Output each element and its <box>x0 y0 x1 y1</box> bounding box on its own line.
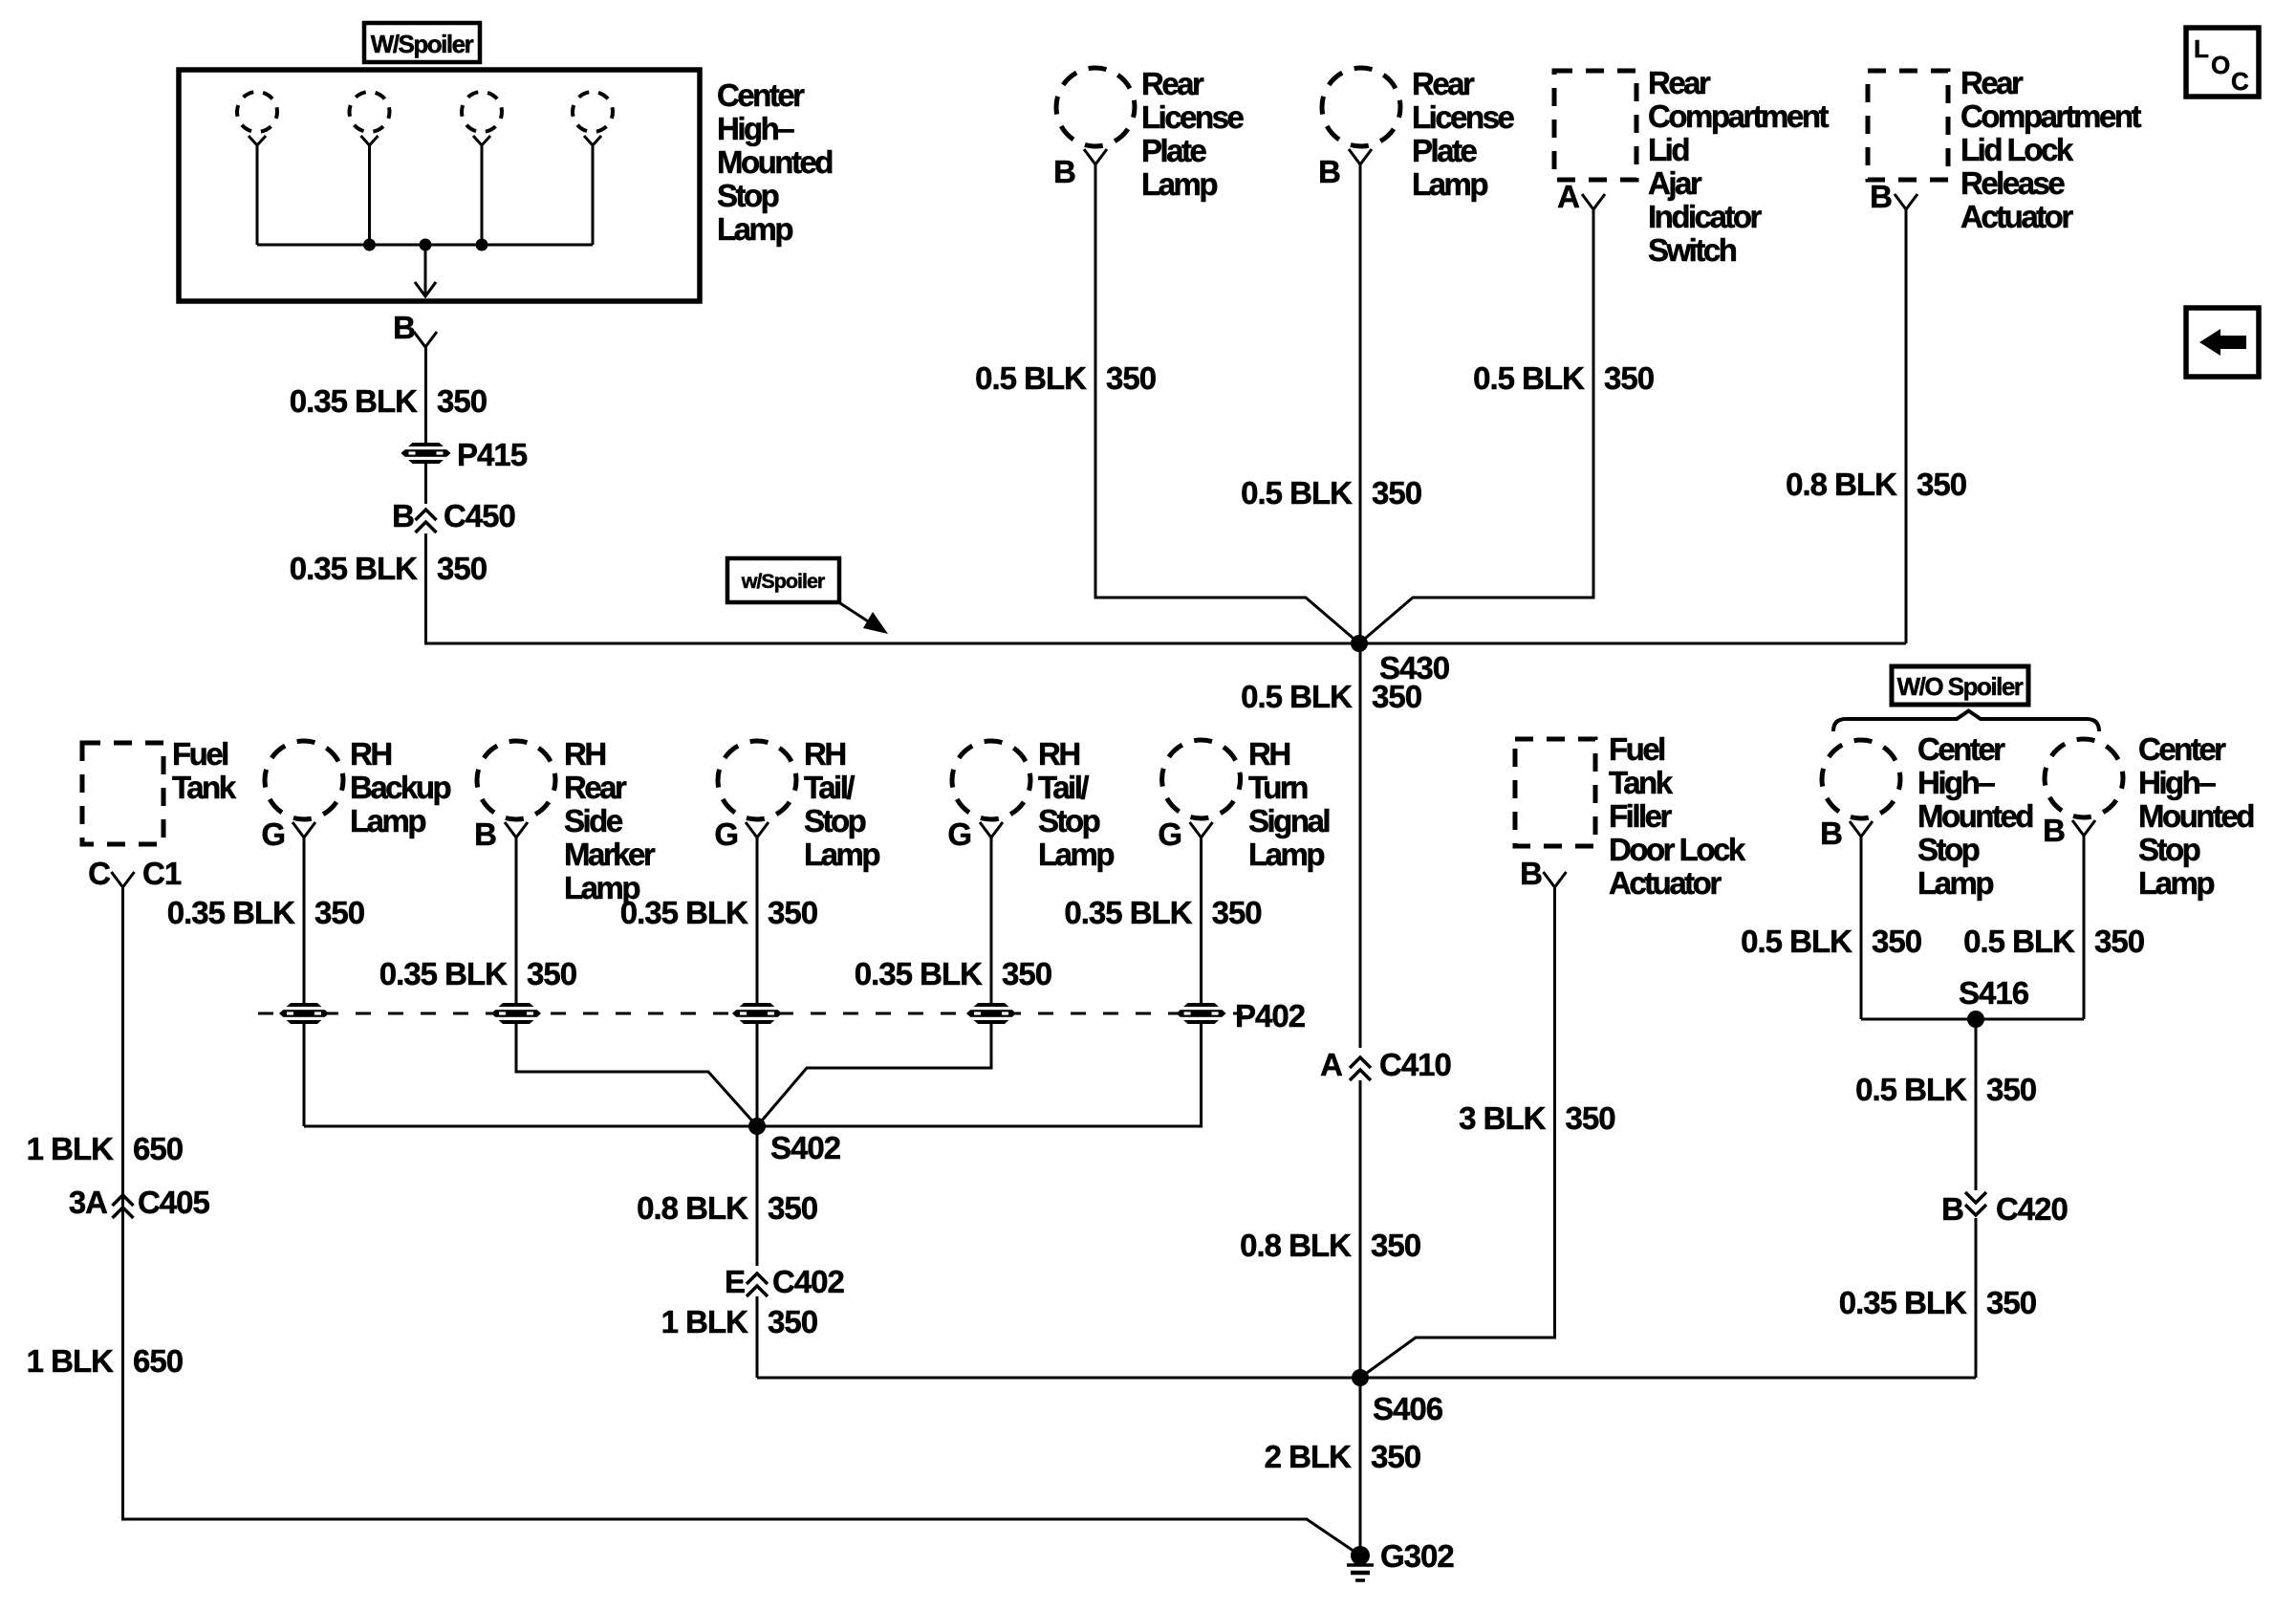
svg-text:350: 350 <box>2094 924 2144 959</box>
svg-text:Center: Center <box>1917 731 2005 767</box>
svg-text:0.35 BLK: 0.35 BLK <box>855 956 983 991</box>
svg-text:RH: RH <box>564 736 605 772</box>
svg-text:Door Lock: Door Lock <box>1609 832 1746 867</box>
svg-text:Mounted: Mounted <box>717 144 832 180</box>
svg-text:G302: G302 <box>1380 1538 1454 1574</box>
svg-text:350: 350 <box>1566 1100 1615 1136</box>
svg-text:Tail/: Tail/ <box>804 770 855 805</box>
svg-text:B: B <box>1820 816 1842 851</box>
svg-text:Center: Center <box>2138 731 2226 767</box>
svg-text:Lamp: Lamp <box>1917 865 1993 901</box>
svg-text:G: G <box>714 816 738 852</box>
svg-text:Plate: Plate <box>1141 133 1207 168</box>
svg-text:Rear: Rear <box>1648 65 1711 100</box>
svg-text:G: G <box>1158 816 1181 852</box>
svg-text:Rear: Rear <box>1412 66 1475 101</box>
svg-text:Actuator: Actuator <box>1960 199 2073 234</box>
svg-text:0.35 BLK: 0.35 BLK <box>1839 1285 1967 1320</box>
svg-text:350: 350 <box>1372 679 1421 714</box>
svg-text:L: L <box>2194 34 2209 63</box>
svg-text:Side: Side <box>564 803 623 838</box>
svg-text:Compartment: Compartment <box>1648 98 1830 134</box>
svg-text:Fuel: Fuel <box>172 736 227 772</box>
svg-text:License: License <box>1141 99 1245 135</box>
svg-text:Indicator: Indicator <box>1648 199 1763 234</box>
svg-text:C1: C1 <box>142 856 182 891</box>
svg-text:Tail/: Tail/ <box>1038 770 1089 805</box>
svg-text:350: 350 <box>1604 360 1654 396</box>
svg-text:0.35 BLK: 0.35 BLK <box>167 895 295 930</box>
svg-text:Lamp: Lamp <box>1248 837 1324 872</box>
svg-text:Filler: Filler <box>1609 798 1673 834</box>
svg-text:High–: High– <box>717 111 794 146</box>
svg-text:S416: S416 <box>1959 975 2029 1011</box>
svg-text:0.5 BLK: 0.5 BLK <box>1473 360 1585 396</box>
svg-text:350: 350 <box>1872 924 1921 959</box>
svg-text:G: G <box>947 816 971 852</box>
svg-text:Backup: Backup <box>350 770 451 805</box>
svg-text:350: 350 <box>1002 956 1051 991</box>
svg-text:0.35 BLK: 0.35 BLK <box>379 956 508 991</box>
svg-text:B: B <box>1318 154 1340 189</box>
svg-text:0.35 BLK: 0.35 BLK <box>290 383 418 419</box>
svg-text:Lamp: Lamp <box>350 803 425 838</box>
svg-text:C405: C405 <box>138 1185 210 1220</box>
svg-text:350: 350 <box>1212 895 1262 930</box>
svg-text:1 BLK: 1 BLK <box>661 1304 749 1339</box>
svg-text:1 BLK: 1 BLK <box>27 1343 115 1379</box>
svg-text:350: 350 <box>437 551 487 586</box>
svg-text:350: 350 <box>768 895 817 930</box>
svg-text:RH: RH <box>804 736 845 772</box>
svg-text:1 BLK: 1 BLK <box>27 1131 115 1166</box>
svg-text:350: 350 <box>527 956 576 991</box>
svg-text:W/Spoiler: W/Spoiler <box>371 30 474 58</box>
svg-text:w/Spoiler: w/Spoiler <box>741 570 826 593</box>
svg-text:O: O <box>2211 51 2230 79</box>
svg-text:0.5 BLK: 0.5 BLK <box>1241 475 1353 511</box>
svg-text:650: 650 <box>133 1131 183 1166</box>
svg-text:Compartment: Compartment <box>1960 98 2142 134</box>
svg-text:Center: Center <box>717 77 805 113</box>
svg-text:0.8 BLK: 0.8 BLK <box>637 1190 748 1226</box>
svg-text:0.5 BLK: 0.5 BLK <box>1855 1072 1967 1107</box>
svg-text:Lid Lock: Lid Lock <box>1960 132 2074 167</box>
svg-text:350: 350 <box>768 1190 817 1226</box>
svg-text:0.8 BLK: 0.8 BLK <box>1240 1228 1352 1263</box>
svg-text:C402: C402 <box>772 1264 845 1299</box>
svg-text:A: A <box>1320 1047 1342 1082</box>
svg-text:Mounted: Mounted <box>1917 798 2032 834</box>
svg-text:Tank: Tank <box>1609 765 1674 800</box>
svg-text:350: 350 <box>1371 1439 1420 1474</box>
svg-text:Stop: Stop <box>1917 832 1980 867</box>
svg-text:Tank: Tank <box>172 770 237 805</box>
svg-text:RH: RH <box>350 736 391 772</box>
svg-text:350: 350 <box>437 383 487 419</box>
svg-text:350: 350 <box>1986 1072 2036 1107</box>
svg-text:High–: High– <box>2138 765 2216 800</box>
svg-text:G: G <box>261 816 285 852</box>
svg-text:0.5 BLK: 0.5 BLK <box>975 360 1087 396</box>
svg-text:0.5 BLK: 0.5 BLK <box>1241 679 1353 714</box>
svg-text:Rear: Rear <box>564 770 627 805</box>
svg-text:B: B <box>1870 179 1892 214</box>
svg-text:0.8 BLK: 0.8 BLK <box>1786 467 1897 502</box>
svg-text:350: 350 <box>1371 1228 1420 1263</box>
svg-text:C: C <box>88 856 110 891</box>
svg-text:High–: High– <box>1917 765 1995 800</box>
svg-text:Lamp: Lamp <box>2138 865 2214 901</box>
svg-text:RH: RH <box>1038 736 1079 772</box>
svg-text:Stop: Stop <box>1038 803 1100 838</box>
svg-text:B: B <box>474 816 496 852</box>
svg-text:350: 350 <box>314 895 364 930</box>
svg-text:Plate: Plate <box>1412 133 1478 168</box>
svg-text:3A: 3A <box>69 1185 107 1220</box>
svg-text:3 BLK: 3 BLK <box>1459 1100 1547 1136</box>
svg-text:Release: Release <box>1960 165 2065 201</box>
svg-text:C450: C450 <box>444 498 515 533</box>
svg-text:Lamp: Lamp <box>717 211 792 247</box>
svg-text:P415: P415 <box>457 437 528 472</box>
svg-text:2 BLK: 2 BLK <box>1265 1439 1353 1474</box>
svg-text:Rear: Rear <box>1141 66 1204 101</box>
svg-text:Lamp: Lamp <box>1038 837 1114 872</box>
svg-text:Signal: Signal <box>1248 803 1329 838</box>
svg-text:C420: C420 <box>1996 1191 2068 1227</box>
svg-text:Turn: Turn <box>1248 770 1308 805</box>
svg-text:350: 350 <box>768 1304 817 1339</box>
svg-text:A: A <box>1557 179 1579 214</box>
svg-text:Actuator: Actuator <box>1609 865 1722 901</box>
svg-text:Stop: Stop <box>804 803 866 838</box>
svg-text:B: B <box>2043 813 2065 848</box>
svg-text:Switch: Switch <box>1648 232 1737 268</box>
svg-text:W/O Spoiler: W/O Spoiler <box>1897 672 2024 701</box>
svg-text:350: 350 <box>1917 467 1966 502</box>
svg-text:Lid: Lid <box>1648 132 1688 167</box>
svg-text:Lamp: Lamp <box>804 837 879 872</box>
svg-text:350: 350 <box>1986 1285 2036 1320</box>
svg-text:B: B <box>1520 856 1542 891</box>
svg-text:Lamp: Lamp <box>1141 166 1217 202</box>
svg-text:0.35 BLK: 0.35 BLK <box>620 895 748 930</box>
svg-text:RH: RH <box>1248 736 1289 772</box>
svg-text:0.5 BLK: 0.5 BLK <box>1963 924 2075 959</box>
svg-text:E: E <box>725 1264 745 1299</box>
svg-text:Marker: Marker <box>564 837 656 872</box>
svg-text:B: B <box>1941 1191 1963 1227</box>
svg-text:Stop: Stop <box>717 178 779 213</box>
svg-text:0.35 BLK: 0.35 BLK <box>290 551 418 586</box>
svg-text:B: B <box>393 310 415 345</box>
svg-text:S402: S402 <box>770 1130 841 1165</box>
svg-text:S406: S406 <box>1373 1391 1443 1426</box>
svg-text:B: B <box>1053 154 1075 189</box>
svg-text:P402: P402 <box>1235 998 1306 1033</box>
svg-text:License: License <box>1412 99 1515 135</box>
svg-text:Lamp: Lamp <box>1412 166 1487 202</box>
svg-text:C: C <box>2231 67 2249 96</box>
svg-text:650: 650 <box>133 1343 183 1379</box>
svg-text:Ajar: Ajar <box>1648 165 1702 201</box>
svg-text:B: B <box>392 498 414 533</box>
svg-text:Fuel: Fuel <box>1609 731 1664 767</box>
svg-text:0.35 BLK: 0.35 BLK <box>1064 895 1192 930</box>
svg-text:350: 350 <box>1372 475 1421 511</box>
svg-text:C410: C410 <box>1379 1047 1451 1082</box>
svg-text:Rear: Rear <box>1960 65 2024 100</box>
svg-text:Mounted: Mounted <box>2138 798 2253 834</box>
svg-text:0.5 BLK: 0.5 BLK <box>1741 924 1852 959</box>
svg-text:Stop: Stop <box>2138 832 2200 867</box>
svg-text:350: 350 <box>1106 360 1156 396</box>
